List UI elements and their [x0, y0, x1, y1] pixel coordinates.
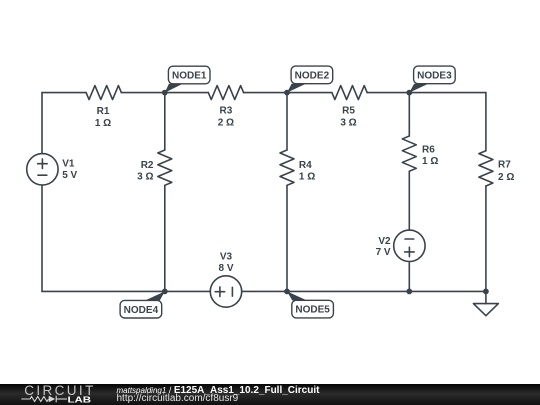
svg-text:2 Ω: 2 Ω: [218, 118, 234, 129]
svg-text:NODE4: NODE4: [124, 305, 159, 316]
svg-text:NODE1: NODE1: [172, 71, 207, 82]
svg-text:R7: R7: [498, 160, 511, 171]
svg-text:V1: V1: [62, 159, 75, 170]
svg-text:3 Ω: 3 Ω: [137, 172, 153, 183]
svg-text:NODE3: NODE3: [417, 71, 452, 82]
svg-text:R2: R2: [141, 160, 154, 171]
svg-text:R3: R3: [220, 106, 233, 117]
svg-text:R4: R4: [299, 160, 312, 171]
svg-text:2 Ω: 2 Ω: [498, 172, 514, 183]
svg-text:V2: V2: [378, 236, 391, 247]
svg-text:8 V: 8 V: [218, 263, 233, 274]
svg-text:5 V: 5 V: [62, 170, 77, 181]
svg-text:7 V: 7 V: [376, 247, 391, 258]
svg-text:R1: R1: [97, 106, 110, 117]
svg-text:1 Ω: 1 Ω: [422, 156, 438, 167]
svg-text:3 Ω: 3 Ω: [340, 118, 356, 129]
svg-text:1 Ω: 1 Ω: [299, 172, 315, 183]
svg-text:NODE2: NODE2: [295, 71, 330, 82]
svg-text:1 Ω: 1 Ω: [95, 118, 111, 129]
svg-text:V3: V3: [220, 252, 233, 263]
svg-text:R6: R6: [422, 144, 435, 155]
svg-text:LAB: LAB: [68, 395, 92, 405]
svg-text:R5: R5: [342, 106, 355, 117]
svg-text:NODE5: NODE5: [295, 305, 330, 316]
